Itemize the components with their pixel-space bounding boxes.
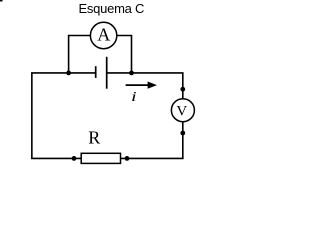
wire: left loop (battery negative terminal to top-left corner, down, to resistor left lead) bbox=[32, 73, 96, 158]
junction dot: above voltmeter bbox=[180, 87, 185, 92]
junction dot: left of resistor bbox=[72, 156, 77, 161]
svg-text:A: A bbox=[97, 24, 110, 44]
svg-text:Esquema C: Esquema C bbox=[78, 1, 144, 16]
current label i bbox=[131, 88, 137, 104]
svg-text:R: R bbox=[88, 128, 100, 148]
junction dot: right of resistor bbox=[125, 156, 130, 161]
junction dot: below voltmeter bbox=[180, 131, 185, 136]
battery B1 positive plate (long) bbox=[106, 57, 108, 89]
junction dot: battery positive / ammeter branch bbox=[129, 71, 134, 76]
battery B1 negative plate (short) bbox=[95, 66, 97, 78]
wire: ammeter branch (left junction up, across through ammeter, down to right junction) bbox=[69, 36, 132, 73]
svg-text:V: V bbox=[176, 104, 187, 120]
resistor R (box) bbox=[81, 153, 120, 163]
voltmeter U2 bbox=[171, 99, 194, 122]
ammeter U1 bbox=[90, 22, 116, 48]
junction dot: battery negative / ammeter branch bbox=[66, 71, 71, 76]
current direction arrow bbox=[126, 82, 157, 89]
svg-text:i: i bbox=[131, 88, 137, 104]
wire: right loop (battery positive terminal to top-right corner, down through voltmeter, bottom-right corner, to resistor right lead) bbox=[107, 73, 183, 158]
